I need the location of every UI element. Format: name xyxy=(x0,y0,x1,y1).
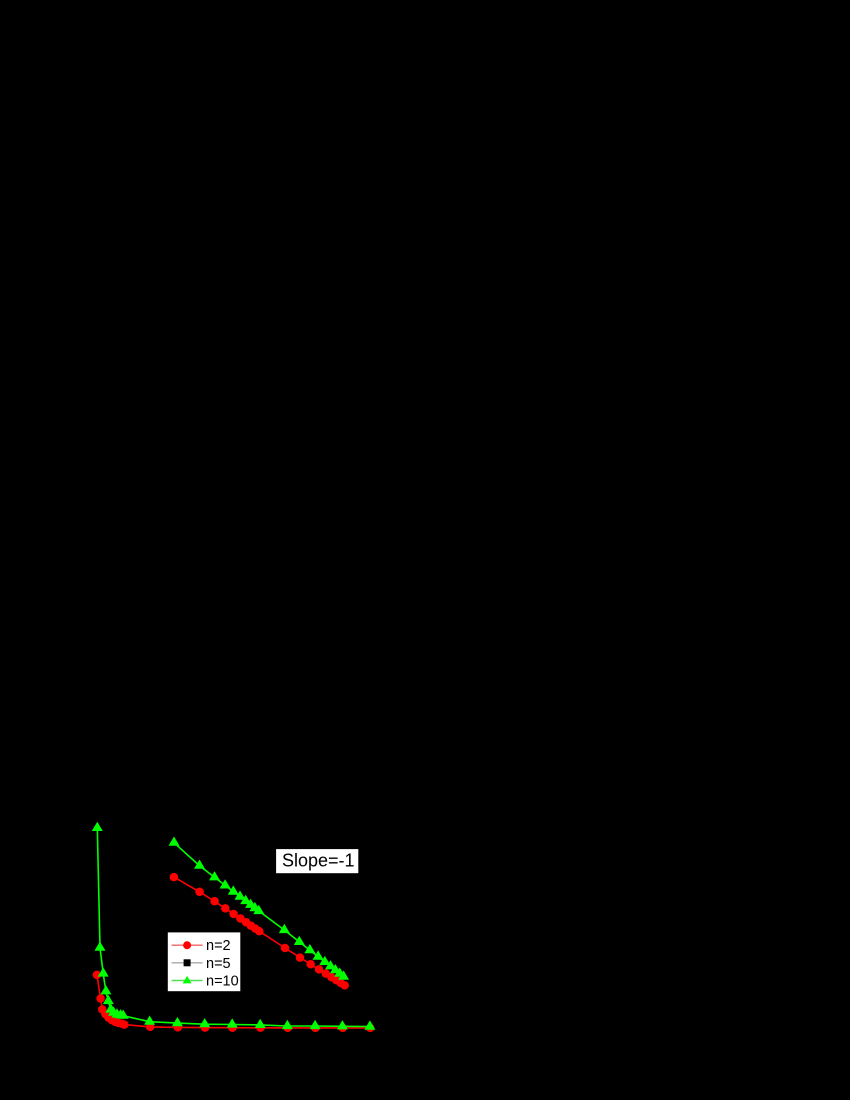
red n=2 linear-axes curve (wire) xyxy=(97,975,370,1028)
green n=10 linear-axes markers xyxy=(92,822,376,1030)
legend row n=2 xyxy=(172,944,203,946)
green n=10 log-log markers xyxy=(169,837,350,980)
red n=2 linear-axes markers xyxy=(93,971,375,1033)
svg-text:n=5: n=5 xyxy=(206,956,231,972)
green n=10 linear-axes curve (wire) xyxy=(97,828,370,1027)
svg-text:n=2: n=2 xyxy=(206,938,231,954)
legend box xyxy=(168,932,241,991)
red n=2 log-log line (slope -1) xyxy=(174,877,345,985)
Slope=-1 annotation box xyxy=(276,849,358,873)
svg-text:Slope=-1: Slope=-1 xyxy=(282,851,355,871)
svg-text:n=10: n=10 xyxy=(206,974,239,990)
legend row n=10 xyxy=(172,980,203,982)
red n=2 log-log markers xyxy=(170,873,349,990)
green n=10 log-log line (slope -1) xyxy=(174,843,344,977)
legend row n=5 xyxy=(172,962,203,964)
